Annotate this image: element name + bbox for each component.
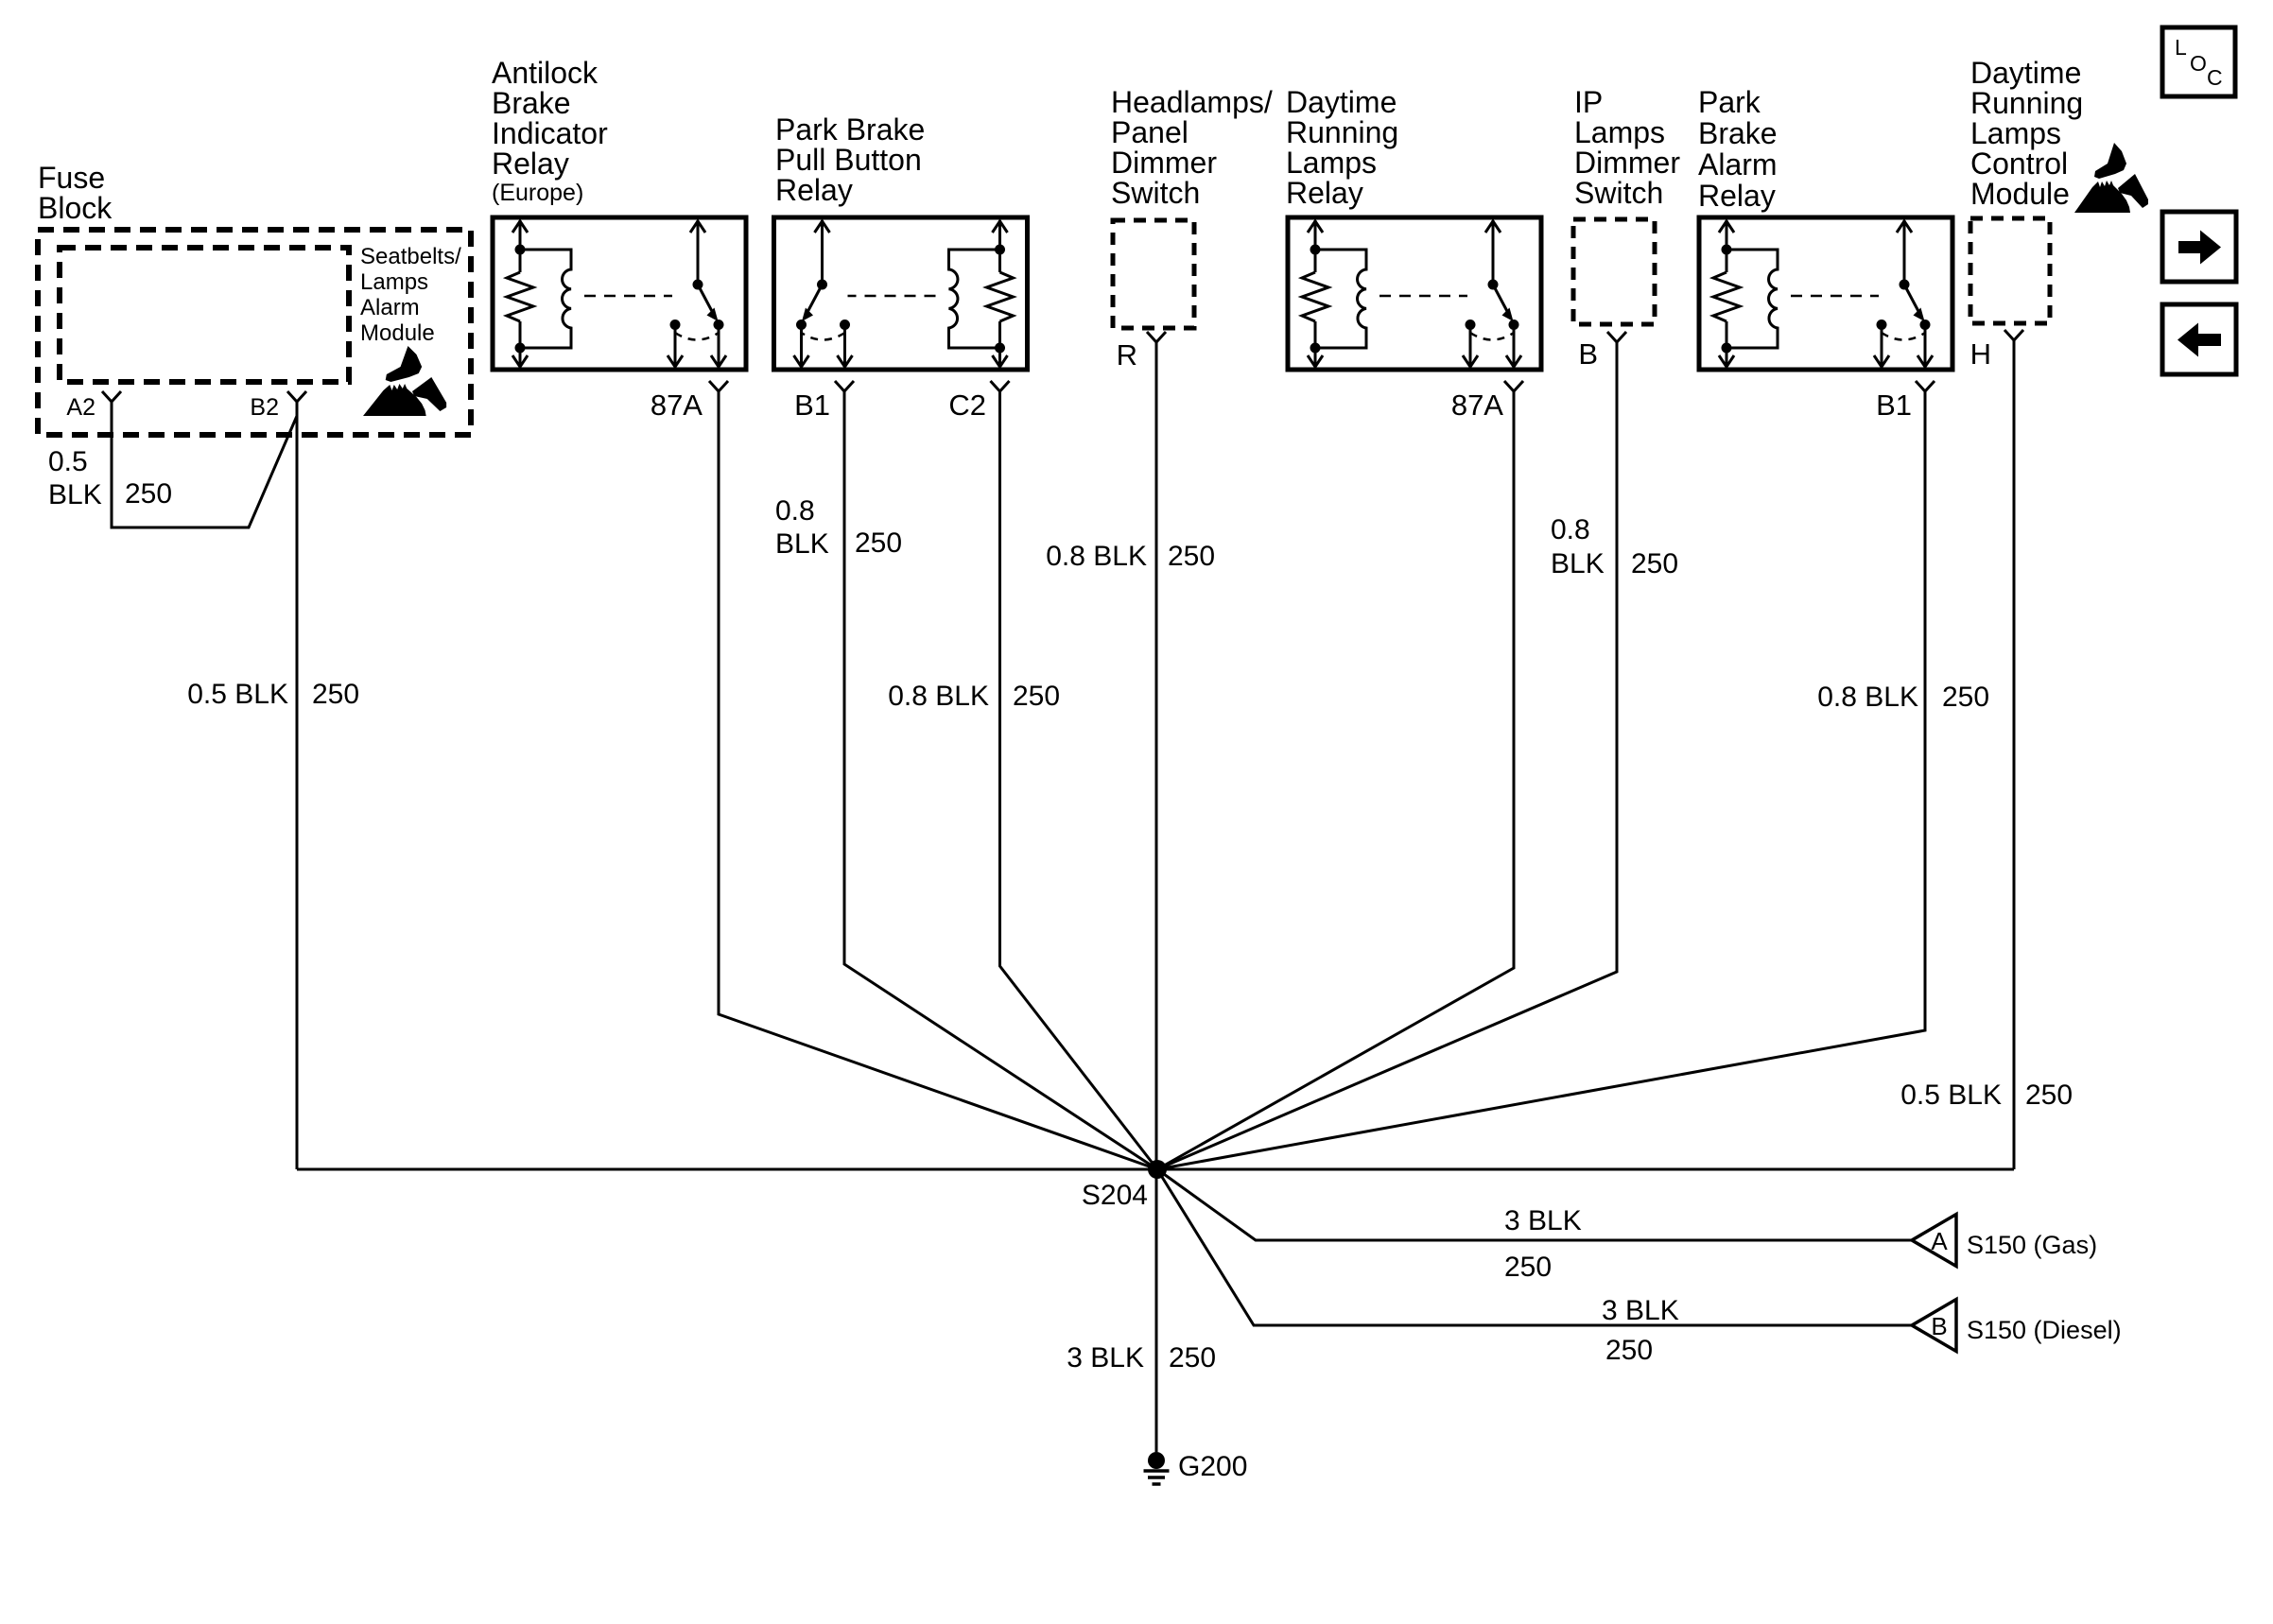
svg-text:250: 250 [1013, 681, 1060, 712]
svg-text:250: 250 [2025, 1080, 2073, 1111]
svg-text:3 BLK: 3 BLK [1504, 1205, 1582, 1236]
svg-text:Control: Control [1970, 147, 2068, 181]
svg-text:Fuse: Fuse [38, 161, 105, 195]
svg-text:87A: 87A [651, 389, 703, 422]
svg-text:C: C [2207, 65, 2223, 90]
svg-text:Seatbelts/: Seatbelts/ [360, 244, 461, 269]
svg-text:0.5: 0.5 [48, 446, 88, 477]
svg-text:Panel: Panel [1111, 115, 1189, 149]
svg-text:A: A [1931, 1227, 1948, 1255]
svg-text:Daytime: Daytime [1286, 85, 1397, 119]
svg-text:3 BLK: 3 BLK [1602, 1295, 1679, 1326]
svg-text:O: O [2190, 51, 2207, 76]
svg-text:Dimmer: Dimmer [1574, 146, 1680, 180]
svg-text:Park: Park [1698, 85, 1761, 119]
svg-text:Running: Running [1286, 115, 1398, 149]
svg-text:0.8 BLK: 0.8 BLK [888, 681, 989, 712]
svg-text:B1: B1 [794, 389, 830, 422]
svg-text:Daytime: Daytime [1970, 56, 2081, 90]
svg-text:87A: 87A [1451, 389, 1503, 422]
svg-text:Module: Module [360, 320, 435, 346]
svg-text:Relay: Relay [1286, 176, 1363, 210]
svg-text:S204: S204 [1082, 1180, 1148, 1211]
svg-text:250: 250 [1605, 1335, 1653, 1366]
svg-text:B1: B1 [1876, 389, 1912, 422]
svg-text:0.8 BLK: 0.8 BLK [1817, 682, 1918, 713]
svg-text:250: 250 [1168, 541, 1215, 572]
svg-text:R: R [1117, 338, 1137, 371]
svg-text:Dimmer: Dimmer [1111, 146, 1217, 180]
svg-text:Block: Block [38, 191, 113, 225]
svg-text:Brake: Brake [1698, 116, 1778, 150]
svg-text:B2: B2 [250, 394, 279, 421]
svg-text:Alarm: Alarm [360, 295, 420, 320]
svg-text:Lamps: Lamps [360, 269, 428, 295]
svg-text:Lamps: Lamps [1286, 146, 1377, 180]
svg-text:B: B [1931, 1312, 1947, 1340]
svg-text:G200: G200 [1178, 1451, 1247, 1482]
svg-text:250: 250 [1504, 1252, 1552, 1283]
svg-text:0.8: 0.8 [775, 495, 815, 527]
svg-text:Lamps: Lamps [1970, 116, 2061, 150]
svg-text:H: H [1970, 337, 1991, 371]
svg-text:Relay: Relay [1698, 179, 1776, 213]
svg-text:Switch: Switch [1574, 176, 1663, 210]
svg-text:(Europe): (Europe) [492, 180, 583, 206]
svg-text:C2: C2 [948, 389, 986, 422]
svg-text:Park Brake: Park Brake [775, 112, 925, 147]
svg-text:Pull Button: Pull Button [775, 143, 922, 177]
svg-text:250: 250 [1169, 1342, 1216, 1373]
svg-text:Switch: Switch [1111, 176, 1200, 210]
svg-text:IP: IP [1574, 85, 1603, 119]
svg-text:Brake: Brake [492, 86, 571, 120]
svg-text:3 BLK: 3 BLK [1067, 1342, 1144, 1373]
svg-text:Indicator: Indicator [492, 116, 608, 150]
svg-text:250: 250 [312, 679, 359, 710]
svg-text:250: 250 [855, 527, 902, 559]
svg-text:0.5 BLK: 0.5 BLK [187, 679, 288, 710]
svg-text:S150 (Diesel): S150 (Diesel) [1967, 1316, 2122, 1344]
svg-text:Relay: Relay [775, 173, 853, 207]
svg-text:Antilock: Antilock [492, 56, 599, 90]
svg-text:0.8 BLK: 0.8 BLK [1046, 541, 1147, 572]
svg-text:BLK: BLK [48, 479, 102, 510]
svg-text:S150 (Gas): S150 (Gas) [1967, 1231, 2097, 1259]
svg-text:Running: Running [1970, 86, 2083, 120]
svg-text:L: L [2175, 35, 2187, 60]
svg-text:250: 250 [1942, 682, 1989, 713]
svg-text:0.5 BLK: 0.5 BLK [1900, 1080, 2002, 1111]
svg-text:BLK: BLK [1551, 548, 1605, 579]
svg-text:250: 250 [1631, 548, 1678, 579]
svg-text:B: B [1578, 337, 1598, 371]
svg-text:0.8: 0.8 [1551, 514, 1590, 545]
svg-text:Headlamps/: Headlamps/ [1111, 85, 1273, 119]
svg-text:Lamps: Lamps [1574, 115, 1665, 149]
svg-text:Alarm: Alarm [1698, 147, 1778, 181]
svg-text:A2: A2 [66, 394, 95, 421]
svg-text:250: 250 [125, 478, 172, 510]
svg-text:BLK: BLK [775, 528, 829, 560]
svg-text:Relay: Relay [492, 147, 569, 181]
svg-text:Module: Module [1970, 177, 2070, 211]
